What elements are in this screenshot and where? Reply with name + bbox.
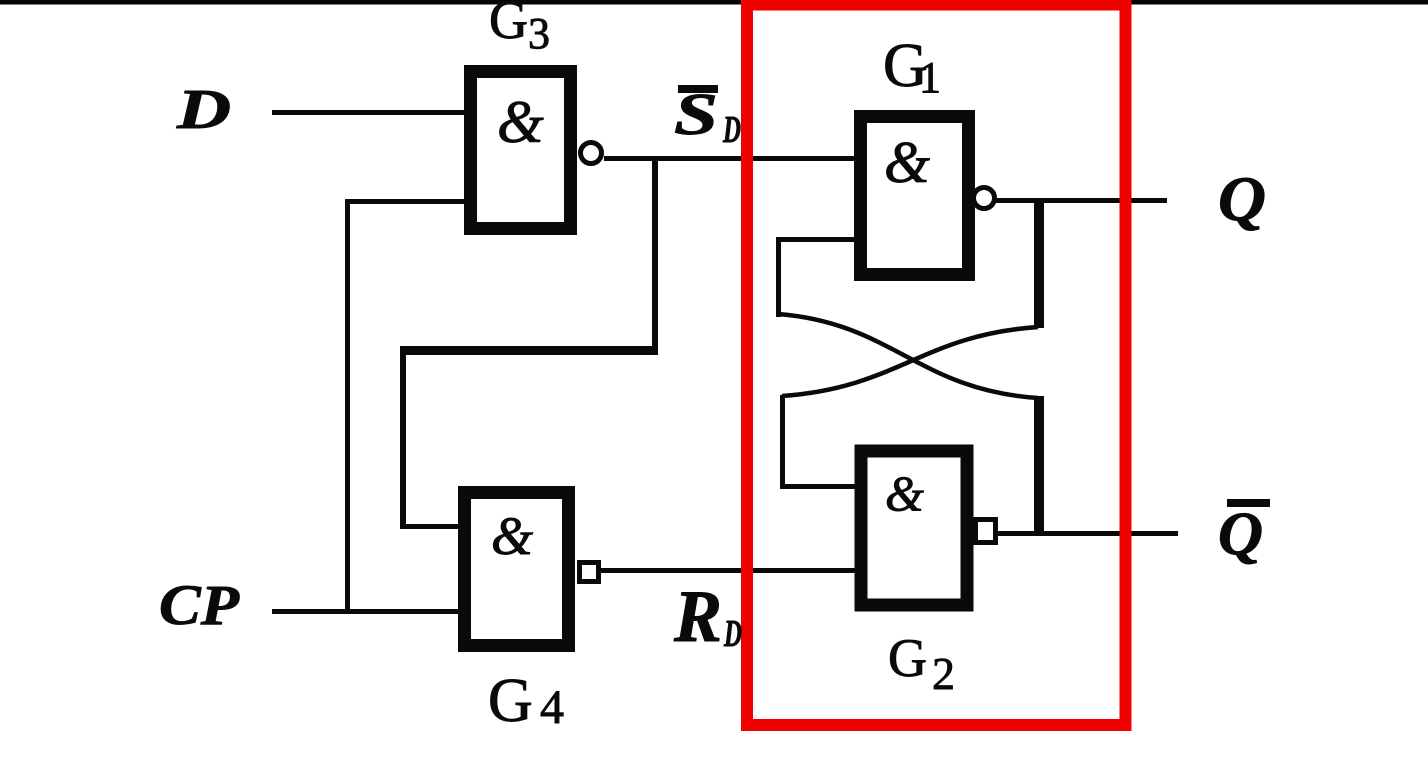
wire: junction drop from S̄D node [652,158,658,351]
svg-text:&: & [497,89,544,155]
svg-text:G: G [488,667,533,735]
svg-text:&: & [884,129,930,195]
wire: Q feedback thick vertical upper segment [1034,199,1044,328]
svg-text:4: 4 [540,681,564,734]
gate G1 (NAND) box [861,117,969,275]
wire: D input to G3 [272,110,464,115]
svg-text:&: & [885,465,924,521]
wire: G4 output (R̄D) to G2 lower input [601,568,855,573]
gate G2 (NAND) box [861,451,967,605]
wire: Q output [996,198,1167,203]
wire: CP riser vertical [345,199,350,612]
wire: cross diagonal from Q rail down to left [782,327,1038,396]
gate G4 output bubble (square) [580,563,599,582]
wire: G1 lower input stub [776,237,854,242]
gate G3 (NAND) box [471,72,571,229]
wire: G3 output (S̄D) to G1 upper input [604,156,854,161]
svg-text:3: 3 [528,9,550,58]
svg-text:Q: Q [1218,164,1266,234]
wire: G4 upper input stub [400,524,458,529]
svg-text:D: D [176,79,231,141]
svg-text:D: D [723,613,742,655]
svg-text:G: G [489,0,528,50]
gate G4 (NAND) box [465,493,569,646]
red highlight box around SR latch G1/G2 [747,5,1126,726]
wire: Q̄ output [998,531,1178,536]
label S̄D overbar [678,85,718,93]
wire: left feedback vertical lower [780,395,785,486]
wire: G2 upper input stub [780,484,855,489]
svg-text:2: 2 [932,648,955,699]
wire: left feedback vertical upper [776,237,781,317]
svg-text:&: & [491,506,533,566]
svg-text:CP: CP [159,574,240,637]
svg-text:D: D [722,109,741,151]
wire: CP branch to G3 lower input [345,199,464,204]
wire: cross diagonal from left down to Q̄ rail [778,314,1038,398]
gate G2 output bubble (square) [976,520,996,543]
svg-text:Q: Q [1218,501,1263,568]
svg-text:1: 1 [919,53,941,102]
label Q̄ overbar [1227,499,1270,507]
wire: Q̄ feedback thick vertical lower segment [1034,396,1044,535]
top border bar [0,0,1428,5]
svg-text:R: R [673,576,722,658]
gate G3 output bubble [581,143,602,164]
wire: CP input horizontal [272,609,458,614]
wire: thick horizontal feedback to G4 [400,346,658,355]
svg-text:G: G [888,628,927,688]
gate G1 output bubble [974,188,995,209]
wire: vertical down to G4 upper input [400,348,406,528]
